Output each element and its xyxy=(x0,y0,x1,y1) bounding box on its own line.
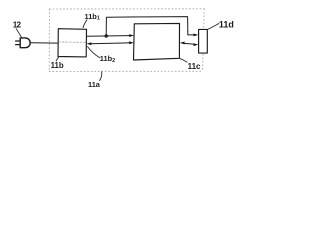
wire 11b to 11c (bottom, double arrow) xyxy=(90,42,131,45)
box 11c xyxy=(134,23,180,60)
leader for 11b1 xyxy=(83,20,87,28)
svg-text:11b: 11b xyxy=(51,61,64,70)
svg-text:12: 12 xyxy=(13,20,22,29)
svg-text:11a: 11a xyxy=(88,80,101,89)
box 11d xyxy=(199,29,208,53)
junction dot xyxy=(105,34,108,37)
leader for 11c xyxy=(180,59,187,63)
svg-text:11d: 11d xyxy=(219,20,234,30)
label 12 xyxy=(13,12,234,89)
box 11b xyxy=(58,29,87,57)
svg-text:11b1: 11b1 xyxy=(85,12,100,22)
wire 11c to 11d (double arrow) xyxy=(183,43,195,44)
wire plug to box 11b xyxy=(30,42,58,44)
leader for 11b2 xyxy=(88,47,100,58)
dashed divider inside 11b xyxy=(59,41,87,43)
plug 12 xyxy=(20,38,30,48)
leader for 11b xyxy=(56,57,58,61)
svg-text:11b2: 11b2 xyxy=(100,54,115,64)
plug prong 1 xyxy=(16,40,21,42)
leader for 12 xyxy=(16,29,21,37)
plug prong 2 xyxy=(16,44,21,46)
wire riser and top run to 11d xyxy=(106,17,188,36)
svg-text:11c: 11c xyxy=(188,62,201,71)
wire 11b to 11c (top) xyxy=(87,35,131,38)
dashed enclosure 11a xyxy=(49,9,204,72)
leader for 11d xyxy=(208,24,219,30)
leader for 11a xyxy=(100,72,102,81)
